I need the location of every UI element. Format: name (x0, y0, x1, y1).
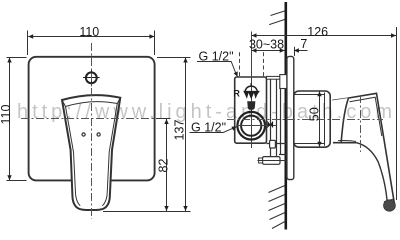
wall line (284, 2, 287, 230)
valve flange block behind plate (280, 75, 288, 89)
handle screw dots (82, 133, 100, 136)
wall plate (front view) (29, 57, 155, 181)
dimension 126 (252, 27, 397, 200)
dimension 7 (294, 50, 308, 52)
grip centerline vertical (360, 95, 362, 152)
dimension 30~38 (252, 50, 285, 52)
valve body box (235, 77, 267, 143)
centerline horizontal (front view) (21, 118, 170, 120)
svg-text:7: 7 (300, 37, 307, 51)
svg-text:82: 82 (157, 159, 171, 173)
mounting bracket (263, 157, 281, 165)
dashed position lines (240, 52, 264, 77)
lever blade (333, 93, 395, 211)
cartridge fan ornament (243, 83, 260, 99)
inlet circle G 1/2 (237, 112, 276, 140)
svg-text:30~38: 30~38 (249, 37, 284, 51)
dimension 50 (319, 92, 321, 147)
dimension 110 top (28, 31, 155, 56)
svg-text:110: 110 (0, 104, 13, 124)
svg-text:126: 126 (307, 25, 328, 39)
sleeve lines (267, 79, 294, 156)
wall hatch bottom (269, 186, 285, 229)
dimension 110 left (7, 58, 27, 181)
svg-text:R: R (233, 89, 240, 99)
centerline horizontal (side view) (227, 119, 383, 121)
lever tip cap (384, 199, 394, 202)
top flange (267, 76, 282, 79)
set screw bowtie (268, 121, 274, 128)
stub fitting (270, 140, 276, 148)
handle (front view) (62, 95, 120, 210)
handle collar (side) (294, 91, 330, 147)
wall hatch top (269, 11, 285, 25)
cartridge plug (247, 101, 255, 110)
escutcheon plate (side) (287, 56, 294, 179)
screw hole circle (83, 70, 100, 87)
dimension 82 right (156, 119, 171, 212)
lever neck line (333, 98, 349, 100)
svg-text:110: 110 (79, 25, 99, 39)
dimension 137 right (103, 58, 191, 212)
centerline vertical (front view) (91, 43, 93, 219)
valve center extension line (251, 32, 253, 149)
